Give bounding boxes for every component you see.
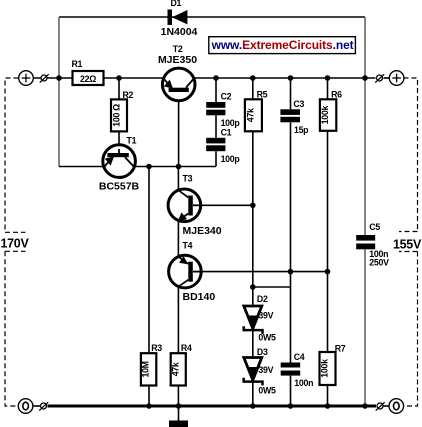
node T4 base R6 junction — [325, 269, 331, 275]
node output rail R6 junction — [325, 75, 331, 81]
wire main rail left segment — [33, 77, 73, 79]
svg-text:R6: R6 — [331, 90, 342, 100]
capacitor C4 — [281, 352, 313, 388]
svg-text:C4: C4 — [294, 352, 305, 362]
wire R1 to T2 — [104, 77, 171, 79]
transistor T2 MJE350 — [158, 44, 197, 101]
wire C2 column top — [215, 78, 217, 102]
svg-text:R7: R7 — [335, 344, 346, 354]
wire R5 column top — [252, 78, 254, 99]
svg-text:0W5: 0W5 — [258, 333, 276, 343]
node ground bus R7 junction — [325, 403, 331, 409]
svg-text:T4: T4 — [183, 241, 193, 251]
wire right bus lower — [364, 249, 366, 406]
wire T2 collector rail right — [188, 77, 376, 79]
wire C3 to C4 column — [290, 122, 292, 362]
transistor T4 BD140 — [169, 241, 216, 304]
node ground bus D3 junction — [250, 403, 256, 409]
wire R5 to zeners — [252, 131, 254, 306]
svg-text:C5: C5 — [369, 222, 380, 232]
wire T4 base line — [198, 271, 328, 273]
svg-text:155V: 155V — [393, 237, 422, 251]
svg-text:100n: 100n — [294, 378, 313, 388]
wire R6 to R7 column — [327, 131, 329, 352]
svg-text:R4: R4 — [181, 343, 192, 353]
wire R3 column — [148, 167, 150, 354]
wire zener to C4 link — [253, 286, 291, 288]
ground — [169, 406, 188, 427]
capacitor C1 — [206, 128, 240, 165]
capacitor C2 — [206, 92, 240, 129]
svg-text:100 Ω: 100 Ω — [112, 104, 122, 127]
resistor R3 — [141, 343, 163, 386]
svg-text:R1: R1 — [72, 59, 83, 69]
svg-text:39V: 39V — [258, 365, 273, 375]
wire mid horizontal through T1 — [59, 166, 216, 168]
connector left top — [40, 74, 49, 82]
svg-text:R2: R2 — [123, 90, 134, 100]
dashed bracket left 170V — [1, 78, 30, 406]
wire left bus — [58, 17, 60, 167]
svg-text:T2: T2 — [173, 44, 183, 54]
node R1-R2 junction — [116, 75, 122, 81]
svg-text:100k: 100k — [320, 106, 330, 125]
diode D1 — [161, 0, 198, 38]
svg-text:C2: C2 — [221, 92, 232, 102]
svg-text:C1: C1 — [221, 128, 232, 138]
zener diode D3 — [244, 347, 276, 395]
svg-text:www.ExtremeCircuits.net: www.ExtremeCircuits.net — [211, 38, 354, 52]
wire top bus — [59, 16, 365, 18]
svg-text:BC557B: BC557B — [99, 181, 140, 193]
node T2 base T3 collector junction — [176, 164, 182, 170]
node D2 C4 junction — [250, 284, 256, 290]
svg-text:39V: 39V — [258, 311, 273, 321]
wire right rail to terminal — [384, 77, 390, 79]
wire D3 to bus — [252, 381, 254, 406]
svg-text:D3: D3 — [257, 347, 268, 357]
node output rail C3 junction — [288, 75, 294, 81]
terminal 0 right — [389, 399, 404, 414]
svg-text:BD140: BD140 — [183, 291, 216, 303]
connector right top — [375, 74, 384, 82]
wire right bus — [364, 17, 366, 235]
svg-text:R3: R3 — [151, 343, 162, 353]
wire R7 bottom — [327, 385, 329, 406]
dashed bracket right 155V — [393, 78, 422, 406]
svg-text:T3: T3 — [183, 174, 193, 184]
wire T2 base down — [178, 90, 180, 167]
node ground bus R3 junction — [146, 403, 152, 409]
capacitor C3 — [280, 99, 309, 135]
node output rail C2 junction — [213, 75, 219, 81]
svg-text:100p: 100p — [221, 154, 241, 164]
svg-text:22Ω: 22Ω — [80, 74, 96, 84]
title box www.ExtremeCircuits.net — [209, 37, 356, 54]
node T1 collector R3 junction — [146, 164, 152, 170]
wire R3 bottom — [148, 386, 150, 407]
wire T3 emitter to T4 emitter — [177, 218, 179, 258]
wire bottom left terminal link — [33, 405, 41, 407]
svg-text:250V: 250V — [369, 258, 389, 268]
svg-text:15p: 15p — [294, 125, 309, 135]
resistor R4 — [170, 343, 192, 386]
node T3 base R5 junction — [250, 203, 256, 209]
connector left bottom — [39, 402, 48, 410]
svg-text:D1: D1 — [171, 0, 182, 8]
node ground bus C4 junction — [288, 403, 294, 409]
resistor R1 — [72, 59, 104, 85]
resistor R6 — [320, 90, 342, 131]
wire R2 column — [118, 78, 120, 99]
svg-text:T1: T1 — [127, 136, 137, 146]
svg-text:170V: 170V — [1, 236, 30, 250]
wire R6 column top — [327, 78, 329, 99]
transistor T3 MJE340 — [168, 174, 222, 238]
transistor T1 BC557B — [99, 136, 140, 193]
svg-text:MJE350: MJE350 — [158, 54, 197, 66]
wire C2-C1 link — [215, 115, 217, 138]
wire C1 bottom riser — [215, 151, 217, 166]
node input rail / left bus junction — [56, 75, 62, 81]
resistor R5 — [245, 90, 268, 132]
zener diode D2 — [244, 294, 276, 343]
node ground bus R4 junction — [176, 403, 182, 409]
terminal + right — [389, 71, 404, 86]
terminal 0 left — [18, 399, 33, 414]
svg-text:47k: 47k — [246, 108, 256, 122]
svg-text:10M: 10M — [141, 361, 151, 377]
svg-text:47k: 47k — [170, 362, 180, 376]
wire T4 collector to R4 — [177, 285, 179, 353]
svg-text:R5: R5 — [257, 90, 268, 100]
wire R2 to T1 base — [118, 131, 120, 155]
resistor R7 — [320, 344, 346, 386]
wire C4 bottom — [290, 376, 292, 406]
node ground bus right bus junction — [362, 403, 368, 409]
svg-text:100k: 100k — [320, 359, 330, 378]
svg-text:C3: C3 — [293, 99, 304, 109]
wire bottom right connector link — [384, 405, 390, 407]
wire R4 bottom — [177, 386, 179, 407]
resistor R2 — [111, 90, 134, 131]
svg-text:100p: 100p — [221, 118, 241, 128]
node output rail R5 junction — [250, 75, 256, 81]
wire C3 column top — [290, 78, 292, 109]
wire T3 collector column — [177, 167, 179, 193]
connector right bottom — [376, 402, 385, 410]
capacitor C5 — [356, 222, 389, 268]
svg-text:D2: D2 — [257, 294, 268, 304]
terminal + left — [19, 71, 34, 86]
node output rail right bus junction — [362, 75, 368, 81]
svg-text:1N4004: 1N4004 — [161, 26, 198, 38]
wire T3 base line — [198, 204, 253, 206]
wire D2-D3 link — [252, 330, 254, 358]
wire bottom bus — [48, 405, 377, 408]
svg-text:0W5: 0W5 — [258, 385, 276, 395]
svg-text:MJE340: MJE340 — [183, 225, 222, 237]
node T4 base C3 junction — [288, 269, 294, 275]
